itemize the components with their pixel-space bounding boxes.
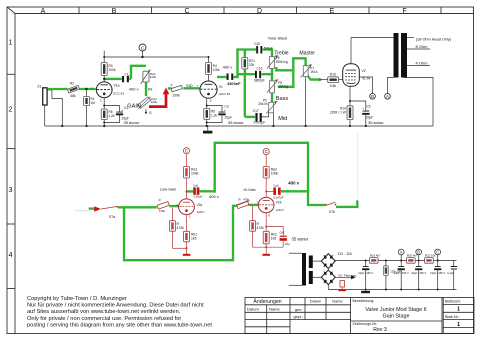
svg-text:22µF / 450 V: 22µF / 450 V [430, 271, 445, 275]
svg-text:R22 10k: R22 10k [425, 253, 436, 257]
svg-text:F: F [402, 8, 406, 15]
svg-text:R19 4k7: R19 4k7 [370, 253, 381, 257]
svg-text:C: C [185, 149, 188, 154]
svg-text:DC: Filaments: DC: Filaments [338, 273, 357, 277]
svg-text:Valve Junior Mod Stage II: Valve Junior Mod Stage II [365, 307, 426, 313]
svg-text:22k: 22k [249, 63, 255, 67]
svg-text:R: R [159, 198, 161, 202]
svg-text:100k: 100k [151, 100, 158, 104]
svg-text:0,50µF: 0,50µF [194, 195, 203, 199]
svg-text:C1: C1 [125, 73, 129, 77]
svg-text:(16-Ohm Head Only): (16-Ohm Head Only) [416, 37, 452, 41]
svg-text:470k: 470k [243, 197, 250, 201]
svg-text:500pF: 500pF [264, 47, 273, 51]
svg-text:Bezeichnung:: Bezeichnung: [353, 299, 375, 303]
svg-text:Mid: Mid [278, 116, 287, 122]
svg-text:400 v: 400 v [223, 65, 233, 70]
svg-text:25µF: 25µF [122, 117, 129, 121]
svg-text:GAIN: GAIN [127, 104, 141, 110]
svg-text:0,047µF: 0,047µF [274, 196, 284, 200]
svg-text:Blattzahl:: Blattzahl: [445, 300, 461, 304]
svg-text:470k: 470k [177, 226, 185, 230]
svg-text:0,1µF: 0,1µF [447, 271, 454, 275]
svg-text:EL 84: EL 84 [363, 77, 371, 81]
svg-text:12AX7: 12AX7 [197, 210, 206, 214]
svg-text:R20 4k7: R20 4k7 [407, 253, 418, 257]
svg-text:Zeichnungs-Nr.:: Zeichnungs-Nr.: [353, 322, 378, 326]
svg-text:100k: 100k [109, 68, 116, 72]
svg-text:4 Ohm: 4 Ohm [416, 60, 429, 65]
svg-text:Gain Stage: Gain Stage [383, 314, 410, 320]
svg-text:ECC 83: ECC 83 [220, 92, 231, 96]
svg-text:12AX7: 12AX7 [276, 208, 285, 212]
svg-text:B: B [371, 94, 374, 99]
svg-text:gepr.:: gepr.: [294, 315, 304, 319]
svg-text:1: 1 [9, 38, 13, 47]
svg-text:Blatt-Nr.:: Blatt-Nr.: [445, 315, 460, 319]
svg-text:B: B [112, 8, 117, 15]
svg-text:220k 2W: 220k 2W [390, 269, 401, 273]
svg-text:25µF: 25µF [225, 116, 232, 120]
svg-text:A: A [41, 8, 46, 15]
svg-text:D: D [257, 8, 262, 15]
svg-text:1k5: 1k5 [271, 236, 277, 240]
svg-text:C: C [184, 8, 189, 15]
svg-text:0,022µF: 0,022µF [254, 121, 266, 125]
svg-text:220R / 1 W: 220R / 1 W [330, 111, 346, 115]
svg-text:posting / serving this diagram: posting / serving this diagram from any … [27, 323, 212, 329]
svg-text:V1: V1 [219, 85, 223, 89]
svg-text:22µF / 450 V: 22µF / 450 V [411, 271, 426, 275]
svg-text:1: 1 [457, 322, 460, 328]
svg-text:8 Ohm: 8 Ohm [416, 44, 429, 49]
svg-text:S7a: S7a [109, 215, 115, 219]
svg-text:R2: R2 [70, 82, 74, 86]
svg-text:G: G [149, 111, 152, 115]
svg-text:10µ: 10µ [285, 242, 290, 246]
svg-text:V2: V2 [362, 69, 366, 73]
svg-text:SID: SID [186, 83, 193, 88]
svg-text:250k log: 250k log [276, 60, 288, 64]
svg-text:Low-Gain: Low-Gain [160, 188, 176, 192]
svg-text:100k: 100k [150, 75, 157, 79]
svg-text:Bass: Bass [276, 96, 289, 102]
svg-text:C: C [141, 45, 145, 51]
svg-text:3300nF: 3300nF [227, 81, 241, 86]
svg-text:IN: IN [148, 86, 152, 91]
svg-text:Datum: Datum [247, 307, 259, 312]
svg-text:35 вольт: 35 вольт [368, 120, 384, 125]
svg-text:100k: 100k [271, 172, 279, 176]
svg-text:+: + [224, 108, 226, 112]
svg-text:1,2k: 1,2k [211, 114, 217, 118]
svg-text:Ca2: Ca2 [273, 183, 279, 187]
svg-text:Änderungen: Änderungen [253, 298, 281, 305]
svg-text:100k: 100k [191, 172, 199, 176]
svg-text:Nur für private / nicht kommer: Nur für private / nicht kommerzielle Anw… [27, 302, 204, 308]
svg-text:1k5: 1k5 [191, 236, 197, 240]
svg-text:ECC 83: ECC 83 [114, 91, 125, 95]
svg-text:1M log: 1M log [278, 85, 288, 89]
svg-text:C5: C5 [367, 105, 371, 109]
svg-text:68k: 68k [71, 94, 77, 98]
svg-text:C16: C16 [257, 67, 263, 71]
svg-text:+: + [121, 108, 123, 112]
svg-text:35 вольт: 35 вольт [124, 120, 140, 125]
svg-text:S: S [171, 83, 173, 87]
svg-text:20µF: 20µF [366, 116, 373, 120]
svg-text:100k: 100k [172, 94, 180, 98]
svg-text:C: C [265, 149, 268, 154]
svg-text:400 v: 400 v [209, 194, 219, 199]
svg-text:Ck2: Ck2 [279, 230, 285, 234]
svg-text:C4: C4 [124, 106, 128, 110]
svg-text:C: C [436, 250, 439, 255]
svg-text:1M A: 1M A [310, 70, 318, 74]
svg-text:V1a: V1a [114, 83, 120, 87]
svg-text:C17: C17 [253, 109, 259, 113]
svg-text:Master: Master [299, 51, 315, 57]
svg-text:25k lin: 25k lin [258, 102, 267, 106]
svg-text:400 v: 400 v [288, 180, 299, 185]
svg-text:C15: C15 [254, 42, 260, 46]
svg-text:470k: 470k [159, 209, 166, 213]
svg-text:+: + [362, 107, 364, 111]
svg-text:2: 2 [9, 105, 13, 114]
svg-text:35 вольт: 35 вольт [292, 236, 309, 241]
svg-text:35 вольт: 35 вольт [228, 120, 244, 125]
svg-text:Tone-Stack: Tone-Stack [268, 35, 288, 40]
svg-text:B: B [417, 250, 420, 255]
svg-text:gez.:: gez.: [295, 308, 303, 312]
svg-text:Copyright by Tube-Town / D. Mu: Copyright by Tube-Town / D. Munzinger [27, 296, 127, 302]
svg-text:auf Sites ausserhalb von www.t: auf Sites ausserhalb von www.tube-town.n… [27, 309, 181, 315]
svg-text:6800pF: 6800pF [254, 79, 265, 83]
svg-text:22µF / 450 V: 22µF / 450 V [358, 271, 373, 275]
svg-text:A: A [400, 250, 403, 255]
svg-text:Name:: Name: [332, 300, 343, 304]
svg-text:3: 3 [9, 185, 13, 194]
svg-text:S7b: S7b [329, 210, 335, 214]
svg-text:400 v: 400 v [129, 86, 139, 91]
svg-text:1: 1 [457, 307, 460, 313]
svg-text:D1 - D4: D1 - D4 [338, 251, 353, 256]
svg-text:E: E [330, 8, 335, 15]
svg-text:Only for private / non commerc: Only for private / non commercial use. P… [27, 316, 181, 322]
svg-text:Rev 3: Rev 3 [373, 327, 387, 333]
svg-text:Ca1: Ca1 [193, 183, 199, 187]
svg-text:Name: Name [269, 307, 280, 312]
svg-text:1,2k: 1,2k [109, 114, 115, 118]
svg-text:4: 4 [9, 250, 13, 259]
svg-text:Hi-Gain: Hi-Gain [244, 188, 256, 192]
svg-text:470k: 470k [257, 226, 265, 230]
svg-text:R16: R16 [330, 73, 336, 77]
svg-text:A: A [386, 94, 389, 99]
svg-text:R: R [239, 197, 241, 201]
svg-text:V2a: V2a [197, 203, 203, 207]
svg-text:6,8k: 6,8k [330, 84, 336, 88]
svg-text:100k: 100k [213, 68, 220, 72]
svg-text:V2b: V2b [276, 201, 282, 205]
svg-text:1M: 1M [91, 101, 96, 105]
svg-text:Datum: Datum [310, 300, 321, 304]
